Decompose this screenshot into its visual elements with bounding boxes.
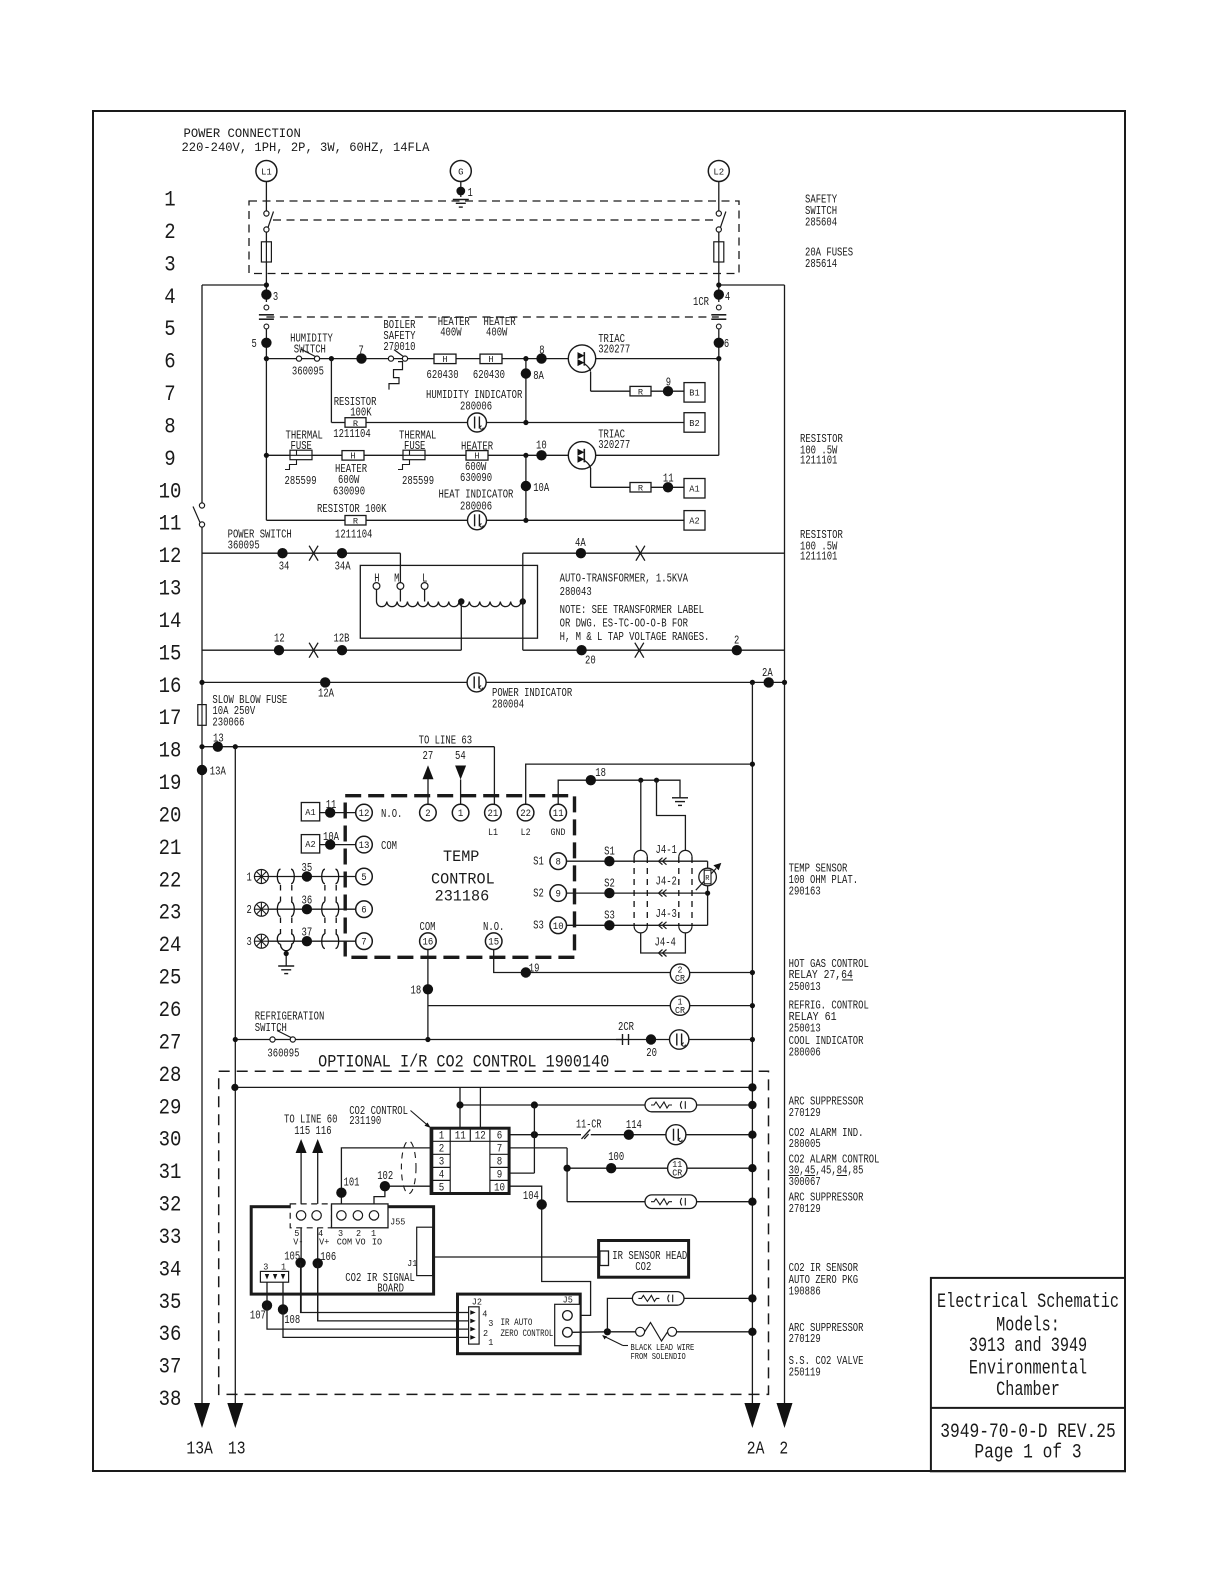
wire 1CR to node 5 <box>265 329 267 359</box>
svg-text:12: 12 <box>475 1130 486 1142</box>
svg-text:28: 28 <box>159 1063 182 1088</box>
co2 alarm lamp <box>666 1125 686 1145</box>
svg-text:100: 100 <box>608 1151 624 1164</box>
svg-text:270129: 270129 <box>789 1107 821 1120</box>
svg-text:FUSE: FUSE <box>404 440 425 453</box>
drawing border frame <box>93 111 1125 1471</box>
svg-text:13: 13 <box>359 841 370 852</box>
heat indicator lamp <box>468 511 487 530</box>
svg-text:CR: CR <box>675 1006 686 1016</box>
svg-text:1: 1 <box>247 872 252 885</box>
node 8 <box>536 353 546 363</box>
svg-text:6: 6 <box>164 350 175 375</box>
svg-text:280005: 280005 <box>789 1138 821 1151</box>
wire terminal 16 down <box>427 950 429 1040</box>
terminal 5 <box>356 868 373 885</box>
safety switch linkage dashed line <box>273 219 713 221</box>
wire J5 lower to solenoid node <box>572 1331 607 1334</box>
svg-text:SWITCH: SWITCH <box>255 1022 287 1035</box>
node 4A <box>576 548 586 558</box>
svg-text:6: 6 <box>497 1130 503 1142</box>
winding tap to row 15 <box>458 598 464 604</box>
wire J1 to IR sensor head <box>434 1256 599 1258</box>
svg-text:HEAT INDICATOR: HEAT INDICATOR <box>439 489 514 502</box>
CO2 control callout pointer <box>411 1111 429 1126</box>
svg-text:11: 11 <box>159 512 182 537</box>
svg-text:IR AUTO: IR AUTO <box>501 1318 533 1329</box>
sensor symbol 2 <box>247 902 269 917</box>
svg-text:19: 19 <box>159 771 182 796</box>
svg-text:250119: 250119 <box>789 1367 821 1380</box>
arrow 2 bottom <box>777 1403 793 1428</box>
wire row 32 <box>567 1201 752 1203</box>
wire S2 <box>567 892 708 894</box>
terminal box B1 <box>684 383 705 403</box>
svg-text:RESISTOR 100K: RESISTOR 100K <box>317 503 387 516</box>
J4 connector stadium left <box>634 850 647 857</box>
node 34 <box>277 548 287 558</box>
wire 2A bus <box>751 682 753 1403</box>
svg-text:36: 36 <box>159 1322 182 1347</box>
terminal 9 <box>550 885 567 902</box>
node 7 <box>356 353 366 363</box>
junction row6 on L2 bus <box>716 356 721 361</box>
svg-text:400W: 400W <box>486 327 507 340</box>
svg-text:H, M & L TAP VOLTAGE RANGES.: H, M & L TAP VOLTAGE RANGES. <box>560 631 710 644</box>
cable dashed ellipse <box>401 1141 416 1194</box>
svg-text:37: 37 <box>159 1355 182 1380</box>
safety switch pole L2 <box>716 211 726 232</box>
node 105 <box>295 1258 305 1268</box>
svg-text:231186: 231186 <box>435 888 490 906</box>
junction 13 bus start <box>233 744 238 749</box>
wire 115 down to J2 <box>300 1153 302 1313</box>
relay coil 11CR <box>668 1159 687 1179</box>
IR auto zero control box <box>458 1294 581 1354</box>
sensor connector arcs column 2 <box>322 869 339 948</box>
svg-text:114: 114 <box>626 1119 642 1132</box>
junction lineA 13bus <box>231 1084 238 1091</box>
wire conn pin1 to 108 <box>282 1282 284 1309</box>
svg-text:R: R <box>353 419 358 429</box>
svg-text:18: 18 <box>159 739 182 764</box>
wire row 31 <box>567 1167 752 1169</box>
wire L1 fuse to node 3 <box>265 262 267 302</box>
wire row 8 <box>366 422 684 424</box>
wire row 15 left <box>202 649 461 651</box>
node 11 (row 10) <box>663 482 673 492</box>
wire row 18 (TO LINE 63) <box>202 746 494 748</box>
svg-text:2: 2 <box>734 635 739 648</box>
svg-text:3: 3 <box>263 1261 268 1272</box>
svg-text:R: R <box>638 484 643 494</box>
svg-text:ZERO CONTROL: ZERO CONTROL <box>501 1329 554 1340</box>
wire sensor 3 to terminal <box>268 940 355 942</box>
svg-text:22: 22 <box>520 809 531 820</box>
svg-text:18: 18 <box>411 985 422 998</box>
svg-text:AUTO-TRANSFORMER, 1.5KVA: AUTO-TRANSFORMER, 1.5KVA <box>560 572 688 585</box>
terminal 12 <box>356 804 373 821</box>
svg-text:32: 32 <box>159 1193 182 1218</box>
terminal 2 <box>420 804 437 821</box>
node 4 <box>714 289 724 299</box>
svg-text:L1: L1 <box>488 828 498 839</box>
svg-text:620430: 620430 <box>473 369 505 382</box>
safety switch dashed box <box>249 201 739 274</box>
arc suppressor capsule row32 <box>645 1195 697 1209</box>
node 10A <box>521 481 531 491</box>
svg-text:1: 1 <box>164 188 175 213</box>
svg-text:10A: 10A <box>323 831 339 844</box>
svg-text:270010: 270010 <box>383 341 415 354</box>
node 107 <box>262 1300 272 1310</box>
heater H2 400W <box>480 354 502 365</box>
svg-text:38: 38 <box>159 1387 182 1412</box>
svg-text:13: 13 <box>228 1440 246 1460</box>
svg-text:10: 10 <box>159 479 182 504</box>
terminal 10 <box>550 917 567 934</box>
svg-text:M: M <box>394 572 399 585</box>
wire pin11 vertical <box>459 1087 461 1128</box>
wire L1 to safety switch <box>265 182 267 212</box>
power indicator lamp <box>467 673 486 692</box>
terminal 21 <box>485 804 502 821</box>
svg-text:8: 8 <box>497 1157 503 1169</box>
wire L2 switch to fuse <box>718 232 720 242</box>
shield wire to J4-1 left <box>640 780 642 850</box>
svg-text:190886: 190886 <box>789 1286 821 1299</box>
svg-text:15: 15 <box>488 938 499 949</box>
terminal 7 <box>356 933 373 950</box>
svg-text:J5: J5 <box>563 1295 573 1306</box>
ground symbol at G <box>453 200 469 208</box>
node 9 <box>663 386 673 396</box>
svg-text:S3: S3 <box>604 909 615 922</box>
wire pin7 to v4 <box>509 1147 567 1149</box>
junction row8 at 8A branch <box>523 420 528 425</box>
wire 105 to J2 pin4 <box>301 1263 469 1313</box>
svg-text:3949-70-0-D REV.25: 3949-70-0-D REV.25 <box>940 1421 1116 1444</box>
wire row 15 right <box>523 649 785 651</box>
connector X row15 left <box>309 643 318 658</box>
svg-text:R: R <box>638 387 643 397</box>
junction row35 bus <box>748 1294 756 1302</box>
svg-text:R: R <box>353 517 358 527</box>
wire L1 switch to fuse <box>265 232 267 242</box>
svg-text:36: 36 <box>302 895 313 908</box>
svg-text:J55: J55 <box>390 1216 406 1227</box>
svg-text:4: 4 <box>725 291 730 304</box>
svg-text:30: 30 <box>159 1128 182 1153</box>
svg-text:1: 1 <box>458 809 463 820</box>
svg-text:14: 14 <box>159 609 182 634</box>
junction resistor branch row 6 <box>329 356 334 361</box>
wire row 12 to transformer tap M <box>399 553 401 582</box>
svg-text:12: 12 <box>159 544 182 569</box>
junction lineB bus <box>748 1101 756 1109</box>
svg-text:231190: 231190 <box>349 1115 381 1128</box>
svg-text:L: L <box>422 572 427 585</box>
svg-text:11: 11 <box>326 799 337 812</box>
svg-text:17: 17 <box>159 706 182 731</box>
junction row31 bus <box>748 1164 756 1172</box>
transformer terminal M <box>397 583 404 590</box>
svg-text:320277: 320277 <box>598 439 630 452</box>
svg-text:2: 2 <box>779 1440 788 1460</box>
svg-text:FROM SOLENDIO: FROM SOLENDIO <box>631 1351 686 1362</box>
heater H3 600W <box>342 451 364 462</box>
1CR contact on L2 <box>711 305 726 329</box>
arrow 13 bottom <box>227 1403 243 1428</box>
svg-text:21: 21 <box>159 836 182 861</box>
svg-text:12B: 12B <box>334 633 350 646</box>
svg-text:OR DWG. ES-TC-OO-O-B FOR: OR DWG. ES-TC-OO-O-B FOR <box>560 618 688 631</box>
svg-text:630090: 630090 <box>333 486 365 499</box>
junction row27 bus <box>750 1037 755 1042</box>
wire row 27 <box>235 1039 752 1041</box>
temp control dashed block border <box>345 796 574 958</box>
node 10 <box>536 450 546 460</box>
svg-text:280006: 280006 <box>789 1046 821 1059</box>
svg-text:1CR: 1CR <box>693 296 709 309</box>
svg-text:HEATER: HEATER <box>461 441 493 454</box>
svg-text:19: 19 <box>529 963 540 976</box>
arrow 54 (from line 54) <box>455 766 466 780</box>
svg-text:8A: 8A <box>533 370 544 383</box>
svg-text:230066: 230066 <box>212 716 244 729</box>
svg-text:33: 33 <box>159 1225 182 1250</box>
svg-text:12: 12 <box>359 809 370 820</box>
svg-text:5: 5 <box>361 873 366 884</box>
IR sensor head box <box>599 1241 689 1278</box>
terminal 1 <box>452 804 469 821</box>
svg-text:107: 107 <box>250 1309 266 1322</box>
svg-text:10: 10 <box>494 1183 505 1195</box>
wire row 12 left <box>202 552 400 554</box>
terminal box A1 link <box>301 803 319 821</box>
junction shield wire 2 <box>654 778 659 783</box>
svg-text:B1: B1 <box>689 388 700 399</box>
wire pin10 to 104 <box>509 1186 590 1315</box>
node 35 <box>302 871 312 881</box>
power switch <box>193 503 205 527</box>
arrow 2A bottom <box>744 1403 760 1428</box>
node S1 <box>604 856 614 866</box>
terminal box B2 <box>684 413 705 433</box>
wire L1 bus rows 6-11 <box>265 359 267 521</box>
svg-text:26: 26 <box>159 998 182 1023</box>
svg-text:35: 35 <box>302 862 313 875</box>
cool indicator lamp <box>670 1030 689 1049</box>
thermal fuse 2 <box>398 450 425 469</box>
svg-text:360095: 360095 <box>292 365 324 378</box>
terminal L1 <box>256 161 277 182</box>
svg-text:COM: COM <box>337 1236 353 1247</box>
wire 108 to J2 pin1 <box>283 1309 469 1337</box>
svg-text:250013: 250013 <box>789 1023 821 1036</box>
svg-text:9: 9 <box>164 447 175 472</box>
junction row32 bus <box>748 1198 756 1206</box>
arrow 115 <box>296 1139 307 1153</box>
junction row30 v3 <box>531 1131 538 1138</box>
svg-text:Environmental: Environmental <box>969 1357 1087 1380</box>
svg-text:CR: CR <box>675 974 686 984</box>
svg-text:300067: 300067 <box>789 1176 821 1189</box>
svg-text:A1: A1 <box>305 807 316 818</box>
svg-text:101: 101 <box>344 1176 360 1189</box>
humidity indicator lamp <box>468 413 487 432</box>
junction row18 on 13A bus <box>199 744 204 749</box>
sensor connector arcs column 1 <box>277 869 294 950</box>
relay coil 1CR (refrig) <box>670 996 689 1016</box>
node 108 <box>278 1304 288 1314</box>
junction row6 on L1 bus <box>264 356 269 361</box>
junction 2A bus start <box>750 680 755 685</box>
junction lineA bus2A <box>748 1083 756 1091</box>
svg-text:H: H <box>442 354 447 365</box>
heater H1 400W <box>434 354 456 365</box>
junction row25 bus <box>750 970 755 975</box>
svg-text:16: 16 <box>423 938 434 949</box>
junction lineB pin11 <box>456 1101 463 1108</box>
connector X row15 right <box>635 643 644 658</box>
wire row 16 <box>202 681 785 683</box>
svg-text:R: R <box>705 875 710 883</box>
wire sensor 2 to terminal <box>268 908 355 910</box>
svg-text:2A: 2A <box>747 1440 765 1460</box>
svg-text:37: 37 <box>302 927 313 940</box>
svg-text:TEMP: TEMP <box>443 848 479 866</box>
svg-text:11: 11 <box>455 1130 466 1142</box>
svg-text:11: 11 <box>663 472 674 485</box>
svg-text:J4-2: J4-2 <box>656 876 677 889</box>
svg-text:J4-3: J4-3 <box>656 908 677 921</box>
svg-text:S2: S2 <box>533 888 544 901</box>
wire pin5 to J55-1 <box>374 1186 431 1210</box>
J55 connector <box>290 1204 388 1228</box>
svg-text:11: 11 <box>553 809 564 820</box>
svg-text:1211101: 1211101 <box>800 455 837 468</box>
wire M to winding <box>399 589 401 601</box>
boiler safety contact <box>388 350 407 390</box>
node 2 <box>732 645 742 655</box>
terminal 22 <box>517 804 534 821</box>
svg-text:L1: L1 <box>261 167 272 178</box>
svg-text:10A: 10A <box>533 482 549 495</box>
svg-text:1: 1 <box>488 1337 493 1348</box>
svg-text:N.O.: N.O. <box>381 808 402 821</box>
sensor symbol 3 <box>247 934 269 949</box>
triac1 gate wire to row 7 <box>590 372 592 391</box>
junction lineB v3 <box>531 1101 538 1108</box>
node 10A link <box>325 839 335 849</box>
thermal fuse 1 <box>285 450 312 469</box>
terminal box A1 <box>684 479 705 499</box>
svg-text:34: 34 <box>279 561 290 574</box>
svg-text:IO: IO <box>372 1236 382 1247</box>
wire row 26 <box>428 1005 753 1007</box>
svg-text:29: 29 <box>159 1095 182 1120</box>
wire terminal 15 to row 25 <box>494 950 753 973</box>
node 114 <box>624 1130 634 1140</box>
svg-text:9: 9 <box>666 377 671 390</box>
svg-text:A2: A2 <box>689 516 700 527</box>
svg-text:10: 10 <box>553 922 564 933</box>
wire L2 to safety switch <box>718 182 720 212</box>
refrigeration switch <box>270 1031 296 1043</box>
terminal 6 <box>356 901 373 918</box>
svg-text:COM: COM <box>381 840 397 853</box>
node 19 <box>521 967 531 977</box>
slow blow fuse <box>198 705 206 726</box>
svg-text:J2: J2 <box>472 1296 482 1307</box>
svg-text:4: 4 <box>439 1170 445 1182</box>
svg-text:3: 3 <box>439 1157 445 1169</box>
junction 10A branch <box>523 453 528 458</box>
J4-4 loop wire <box>641 933 686 953</box>
wire S1 <box>567 860 708 862</box>
svg-text:15: 15 <box>159 641 182 666</box>
1CR linkage dashed line <box>266 316 718 318</box>
node 2A <box>764 677 774 687</box>
svg-text:18: 18 <box>595 767 606 780</box>
wire v3 <box>533 1105 535 1173</box>
svg-text:25: 25 <box>159 966 182 991</box>
CO2 dashed enclosure <box>219 1071 769 1394</box>
svg-text:J1: J1 <box>407 1258 417 1269</box>
junction row36 bus <box>748 1328 756 1336</box>
junction shield wire 1 <box>638 778 643 783</box>
wire line B <box>460 1104 697 1106</box>
humidity switch <box>296 349 319 361</box>
svg-text:270129: 270129 <box>789 1333 821 1346</box>
J4 connector stadium right <box>679 850 692 857</box>
svg-text:3: 3 <box>273 291 278 304</box>
node 36 <box>302 904 312 914</box>
J2 connector <box>469 1307 480 1344</box>
svg-text:A1: A1 <box>689 484 700 495</box>
svg-text:NOTE: SEE TRANSFORMER LABEL: NOTE: SEE TRANSFORMER LABEL <box>560 604 704 617</box>
svg-text:9: 9 <box>497 1170 503 1182</box>
transformer terminal H <box>373 583 380 590</box>
svg-text:285604: 285604 <box>805 217 837 230</box>
temp sensor RTD <box>696 863 722 890</box>
svg-text:285599: 285599 <box>285 475 317 488</box>
svg-text:1211104: 1211104 <box>335 529 372 542</box>
terminal box A2 link <box>301 835 319 853</box>
svg-text:24: 24 <box>159 933 182 958</box>
svg-text:11-CR: 11-CR <box>576 1118 602 1131</box>
svg-text:VO: VO <box>355 1236 365 1247</box>
node 12A <box>320 677 330 687</box>
resistor R row 8 <box>345 418 366 429</box>
svg-text:Electrical Schematic: Electrical Schematic <box>937 1291 1119 1314</box>
svg-text:4: 4 <box>482 1308 487 1319</box>
node 13 <box>213 742 223 752</box>
wire S3 <box>567 924 708 926</box>
wire G drop <box>460 182 462 198</box>
svg-text:280006: 280006 <box>460 401 492 414</box>
winding right end to bus <box>520 598 526 604</box>
svg-text:V+: V+ <box>319 1236 329 1247</box>
wire resistor branch to row 8 <box>330 359 332 423</box>
svg-text:54: 54 <box>455 750 466 763</box>
wire row 6 main <box>266 358 718 360</box>
node 18 (com) <box>423 984 433 994</box>
wire 8A branch vertical <box>525 359 527 423</box>
wire row 11 <box>266 519 684 521</box>
svg-text:V-: V- <box>293 1236 303 1247</box>
